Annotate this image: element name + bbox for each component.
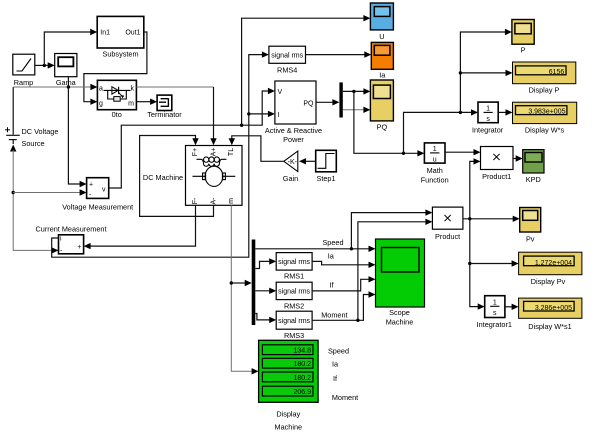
svg-text:v: v — [102, 187, 106, 194]
svg-text:KPD: KPD — [526, 175, 541, 184]
wire RMS4 output to Ia scope — [306, 51, 372, 57]
svg-text:Integrator1: Integrator1 — [477, 320, 512, 329]
svg-text:RMS2: RMS2 — [284, 301, 304, 310]
svg-text:m: m — [128, 101, 134, 108]
wire Speed tap to Product input 1 — [351, 209, 432, 248]
svg-text:RMS3: RMS3 — [284, 331, 304, 340]
svg-text:signal rms: signal rms — [278, 289, 310, 296]
wire demux out1 Speed to Scope Machine input 1 — [255, 238, 375, 252]
svg-text:Ramp: Ramp — [14, 78, 33, 87]
wire voltage net branch up to U scope — [242, 15, 371, 125]
svg-text:Subsystem: Subsystem — [102, 50, 138, 59]
wire battery plus net to thyristor anode a — [13, 84, 97, 90]
svg-text:P: P — [521, 46, 526, 55]
wire RMS1 output Ia to Scope Machine input 2 — [312, 251, 375, 268]
svg-text:Function: Function — [421, 175, 449, 184]
display block Display Machine (green, 4 values) — [259, 340, 319, 431]
svg-text:Display W*s1: Display W*s1 — [528, 322, 571, 331]
scope block U (blue) — [370, 3, 393, 41]
wire battery minus return (to VM minus and Current Measurement minus) — [10, 145, 59, 254]
svg-text:1: 1 — [493, 299, 497, 306]
svg-text:g: g — [99, 101, 103, 108]
svg-text:1: 1 — [433, 146, 437, 153]
svg-text:+: + — [77, 244, 81, 251]
svg-text:F+: F+ — [192, 148, 199, 156]
svg-text:Math: Math — [427, 166, 443, 175]
svg-text:DC Voltage: DC Voltage — [22, 127, 59, 136]
svg-text:V: V — [278, 89, 283, 96]
DC voltage source battery symbol — [5, 87, 58, 148]
wire Ramp branch up to Subsystem In1 — [44, 29, 97, 66]
rms block RMS2 — [276, 282, 312, 310]
svg-text:1: 1 — [486, 106, 490, 113]
ramp source block Ramp — [13, 54, 35, 87]
svg-text:Moment: Moment — [332, 393, 358, 402]
wire battery minus branch to Voltage Measurement minus — [13, 189, 86, 195]
svg-text:Source: Source — [22, 139, 45, 148]
wire Gama bottom tap down to Voltage Measurement plus — [68, 77, 86, 188]
svg-text:Scope: Scope — [389, 308, 410, 317]
svg-text:Power: Power — [283, 135, 304, 144]
scope block P (yellow) — [512, 20, 534, 55]
wire Product output to Pv scope and down chain — [463, 216, 520, 310]
svg-text:u: u — [433, 157, 437, 164]
wire Ramp output to Gama — [35, 62, 55, 68]
integrator block — [472, 102, 504, 134]
svg-text:PQ: PQ — [377, 123, 388, 132]
wire machine measurement output m/E down to demux and Display Machine — [230, 205, 259, 374]
wire Gain output to DC Machine TL input — [229, 136, 284, 162]
svg-text:Display: Display — [276, 410, 300, 419]
svg-text:Voltage Measurement: Voltage Measurement — [62, 203, 133, 212]
svg-text:Active & Reactive: Active & Reactive — [265, 126, 322, 135]
svg-text:Machine: Machine — [275, 423, 303, 432]
subsystem block Subsystem — [97, 16, 144, 58]
svg-text:+: + — [89, 182, 93, 189]
wire Integrator1 to Display W*s1 — [505, 304, 519, 310]
svg-text:-K-: -K- — [288, 159, 298, 166]
wire thyristor k output to DC Machine A+ — [136, 87, 216, 145]
svg-text:Gain: Gain — [283, 174, 298, 183]
wire VM v output to voltage net (U scope / V input) — [109, 88, 275, 188]
display block Display Pv — [519, 252, 582, 286]
svg-text:RMS1: RMS1 — [284, 272, 304, 281]
scope block PQ (yellow) — [370, 80, 393, 132]
wire RMS2 output If to Scope Machine input 3 — [312, 276, 375, 291]
wire Moment tap to Product input 2 — [358, 219, 433, 321]
gain block Gain (left pointing triangle) — [283, 151, 298, 183]
svg-text:Gama: Gama — [56, 78, 77, 87]
thyristor block 0to — [97, 80, 136, 119]
svg-text:1.272e+004: 1.272e+004 — [535, 260, 572, 267]
rms block RMS3 — [276, 311, 312, 340]
wire Integrator to Display W*s — [498, 109, 512, 115]
svg-text:134.8: 134.8 — [293, 348, 311, 355]
math function block 1/u — [421, 143, 449, 184]
demux bar for PQ — [339, 82, 342, 117]
svg-text:Current Measurement: Current Measurement — [36, 225, 107, 234]
step source block Step1 — [316, 150, 337, 183]
svg-text:Machine: Machine — [386, 318, 414, 327]
svg-text:s: s — [486, 116, 490, 123]
svg-text:F-: F- — [192, 197, 199, 204]
svg-text:m: m — [228, 198, 235, 204]
svg-text:Terminator: Terminator — [147, 110, 182, 119]
svg-text:Integrator: Integrator — [472, 125, 504, 134]
current measurement block — [36, 225, 107, 255]
display block Display P — [513, 62, 576, 94]
wire demux P output to PQ scope input 1 — [343, 88, 371, 94]
integrator block Integrator1 — [477, 296, 512, 329]
svg-text:s: s — [493, 310, 497, 317]
wire Math Function to Product1 input 1 — [445, 149, 481, 155]
wire P net: demux tap down and right to Math Function / Integrator chain — [354, 29, 513, 157]
demux bar for machine signals — [252, 240, 256, 326]
svg-text:Display Pv: Display Pv — [531, 277, 566, 286]
wire demux out3 to RMS2 — [255, 288, 276, 294]
svg-text:signal rms: signal rms — [278, 259, 310, 266]
svg-text:A-: A- — [211, 197, 218, 205]
svg-text:Ia: Ia — [328, 251, 335, 260]
product block Product — [432, 207, 463, 241]
wire F- down-left to Current Measurement plus — [84, 205, 196, 249]
svg-text:signal rms: signal rms — [271, 52, 303, 59]
scope block Gama — [55, 54, 77, 88]
wire demux out2 to RMS1 — [255, 258, 276, 268]
svg-text:Speed: Speed — [328, 346, 349, 355]
svg-text:RMS4: RMS4 — [277, 66, 297, 75]
svg-text:Product1: Product1 — [482, 172, 511, 181]
svg-text:Step1: Step1 — [316, 174, 335, 183]
scope block Pv (yellow) — [520, 208, 541, 244]
svg-text:DC Machine: DC Machine — [143, 173, 183, 182]
product block Product1 — [481, 147, 514, 181]
svg-text:Display P: Display P — [529, 85, 560, 94]
svg-text:PQ: PQ — [303, 101, 314, 108]
svg-text:0to: 0to — [112, 110, 122, 119]
svg-text:6156: 6156 — [549, 69, 565, 76]
wire demux out4 to RMS3 — [255, 314, 276, 324]
svg-text:TL: TL — [228, 148, 235, 156]
wire RMS3 output Moment to Scope Machine input 4 — [312, 291, 375, 322]
wire Product1 to KPD display — [513, 155, 523, 161]
svg-text:I: I — [278, 112, 280, 119]
voltage measurement block — [62, 178, 133, 212]
wire PQ output to demux — [316, 99, 339, 105]
wire Step1 to Gain (flipped) — [299, 158, 316, 164]
rms block RMS4 — [269, 46, 306, 74]
svg-text:Pv: Pv — [526, 235, 535, 244]
wire demux Q output to PQ scope input 2 — [343, 107, 371, 113]
svg-text:Out1: Out1 — [125, 30, 140, 37]
svg-text:a: a — [99, 86, 103, 93]
display block Display W*s — [513, 102, 577, 134]
display block KPD (green) — [523, 150, 544, 184]
display block Display W*s1 — [519, 298, 582, 331]
svg-text:180.2: 180.2 — [293, 375, 311, 382]
svg-text:U: U — [379, 32, 384, 41]
wire current net branch to Active and Reactive I input — [249, 111, 275, 117]
svg-text:Product: Product — [435, 232, 460, 241]
terminator block Terminator — [147, 95, 182, 119]
svg-text:3.983e+005: 3.983e+005 — [528, 109, 565, 116]
wire Pv net up to Product1 input 2 — [470, 158, 481, 219]
rms block RMS1 — [276, 253, 312, 281]
svg-text:Display W*s: Display W*s — [525, 125, 565, 134]
svg-text:180.2: 180.2 — [293, 361, 311, 368]
svg-text:3.286e+005: 3.286e+005 — [535, 305, 572, 312]
svg-text:k: k — [131, 86, 135, 93]
wire Subsystem Out1 to thyristor gate g — [84, 32, 147, 105]
scope block Scope Machine (green) — [376, 239, 425, 327]
svg-text:Speed: Speed — [322, 238, 343, 247]
wire A- loop to F+ input — [140, 136, 214, 217]
svg-text:Ia: Ia — [332, 360, 339, 369]
svg-text:Ia: Ia — [379, 71, 386, 80]
active and reactive power block — [265, 81, 322, 144]
DC machine block — [143, 146, 242, 206]
wire thyristor m output to Terminator — [136, 99, 157, 105]
svg-text:A+: A+ — [211, 148, 218, 157]
svg-text:In1: In1 — [100, 30, 110, 37]
wire current measurement i output to current net — [52, 51, 269, 257]
svg-text:Moment: Moment — [321, 311, 347, 320]
scope block Ia (orange) — [371, 42, 393, 79]
svg-text:signal rms: signal rms — [278, 318, 310, 325]
svg-text:206.9: 206.9 — [293, 389, 311, 396]
